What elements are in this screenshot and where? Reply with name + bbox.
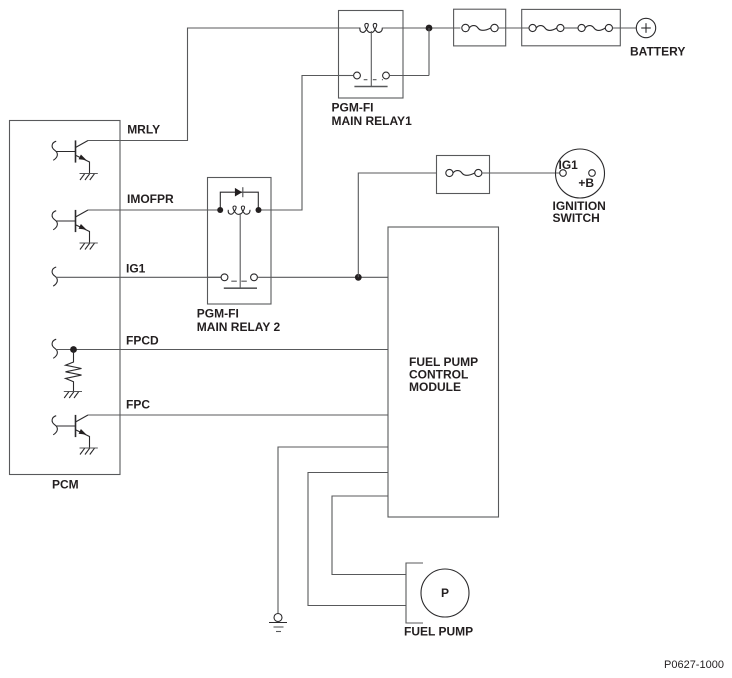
relay2 armature xyxy=(224,213,257,288)
wire relay1 to battery line xyxy=(382,27,460,29)
resistor (FPCD pull-down) xyxy=(66,350,82,392)
label PGM-FI MAIN RELAY 2 xyxy=(197,306,281,333)
battery terminal xyxy=(636,18,655,37)
svg-text:IG1: IG1 xyxy=(559,158,579,172)
wire relay1 switch to relay2 coil xyxy=(259,76,354,211)
fuse F1 element xyxy=(462,24,498,31)
fuel pump connector bracket xyxy=(406,563,423,623)
relay2 contacts xyxy=(208,274,389,281)
transistor Q2 (IMOFPR driver) xyxy=(52,210,89,243)
wire FPC xyxy=(88,414,388,416)
svg-text:PGM-FI: PGM-FI xyxy=(332,101,374,115)
ignition switch xyxy=(556,149,605,198)
svg-text:MRLY: MRLY xyxy=(127,123,160,137)
relay PGM-FI MAIN RELAY1 box xyxy=(339,11,404,99)
wire IG1 xyxy=(56,276,221,278)
svg-text:MAIN RELAY1: MAIN RELAY1 xyxy=(332,114,413,128)
earth ground xyxy=(269,614,287,632)
fuse F2b element xyxy=(578,24,613,31)
svg-text:PCM: PCM xyxy=(52,477,79,491)
transistor Q1 (MRLY driver) xyxy=(52,140,89,173)
wire fuse F3 to ignition switch xyxy=(482,172,560,174)
label PGM-FI MAIN RELAY1 xyxy=(332,101,413,128)
wire IMOFPR xyxy=(88,209,220,211)
wire module to fuel pump (lower) xyxy=(308,473,406,606)
wire FPCD xyxy=(56,349,388,351)
fuel pump control module box xyxy=(388,227,499,517)
ground (Q3 emitter) xyxy=(80,448,98,455)
svg-text:MAIN RELAY 2: MAIN RELAY 2 xyxy=(197,320,281,334)
ground (Q1 emitter) xyxy=(80,174,98,181)
fuel pump motor xyxy=(421,569,469,617)
fuse F1 box xyxy=(454,9,506,46)
relay2 flyback diode xyxy=(220,187,258,210)
wire IG1 node to fuse F3 xyxy=(358,173,436,277)
svg-text:FPCD: FPCD xyxy=(126,333,159,347)
svg-text:FUEL PUMP: FUEL PUMP xyxy=(404,625,473,639)
relay1 contacts xyxy=(339,72,430,80)
svg-text:FPC: FPC xyxy=(126,398,150,412)
svg-text:IMOFPR: IMOFPR xyxy=(127,192,174,206)
relay2 coil xyxy=(228,206,250,214)
relay PGM-FI MAIN RELAY 2 box xyxy=(208,178,272,305)
wire module to fuel pump (upper) xyxy=(332,496,406,575)
svg-text:MODULE: MODULE xyxy=(409,380,461,394)
svg-text:BATTERY: BATTERY xyxy=(630,44,685,58)
junction dot FPCD xyxy=(70,346,77,353)
wire between F2a and F2b xyxy=(564,27,578,29)
transistor Q3 (FPC driver) xyxy=(52,415,89,448)
relay2 coil junction dots xyxy=(217,207,261,213)
junction node (battery line) xyxy=(426,25,433,32)
PCM box xyxy=(10,121,121,475)
svg-text:IG1: IG1 xyxy=(126,261,146,275)
wire between fuse boxes xyxy=(498,27,529,29)
svg-text:+B: +B xyxy=(578,176,594,190)
wire F2 to battery xyxy=(613,27,637,29)
wire node to relay1 switch xyxy=(428,28,430,76)
ground (resistor) xyxy=(64,392,82,399)
relay1 armature xyxy=(354,31,387,87)
label FUEL PUMP CONTROL MODULE xyxy=(409,355,478,394)
pin FPCD squiggle xyxy=(52,339,57,358)
fuse F3 box xyxy=(437,156,490,194)
fuse F2a element xyxy=(529,24,564,31)
relay1 coil xyxy=(360,23,382,32)
ground (Q2 emitter) xyxy=(80,243,98,250)
svg-text:P0627-1000: P0627-1000 xyxy=(664,659,724,671)
fuse F3 element xyxy=(446,169,482,176)
svg-text:PGM-FI: PGM-FI xyxy=(197,306,239,320)
label IGNITION SWITCH xyxy=(553,199,606,225)
junction node (IG1 feed) xyxy=(355,274,362,281)
svg-text:SWITCH: SWITCH xyxy=(553,211,600,225)
wire module to earth ground xyxy=(278,447,388,614)
pin IG1 squiggle xyxy=(52,267,57,286)
wire MRLY xyxy=(88,28,360,141)
fuse box F2 (double fuse) xyxy=(522,9,621,45)
svg-text:P: P xyxy=(441,586,449,600)
